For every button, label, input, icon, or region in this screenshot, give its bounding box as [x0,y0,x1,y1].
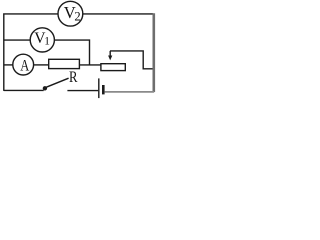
svg-text:R: R [69,69,78,86]
svg-text:1: 1 [44,36,50,48]
svg-text:A: A [20,57,29,75]
svg-text:2: 2 [74,9,80,23]
